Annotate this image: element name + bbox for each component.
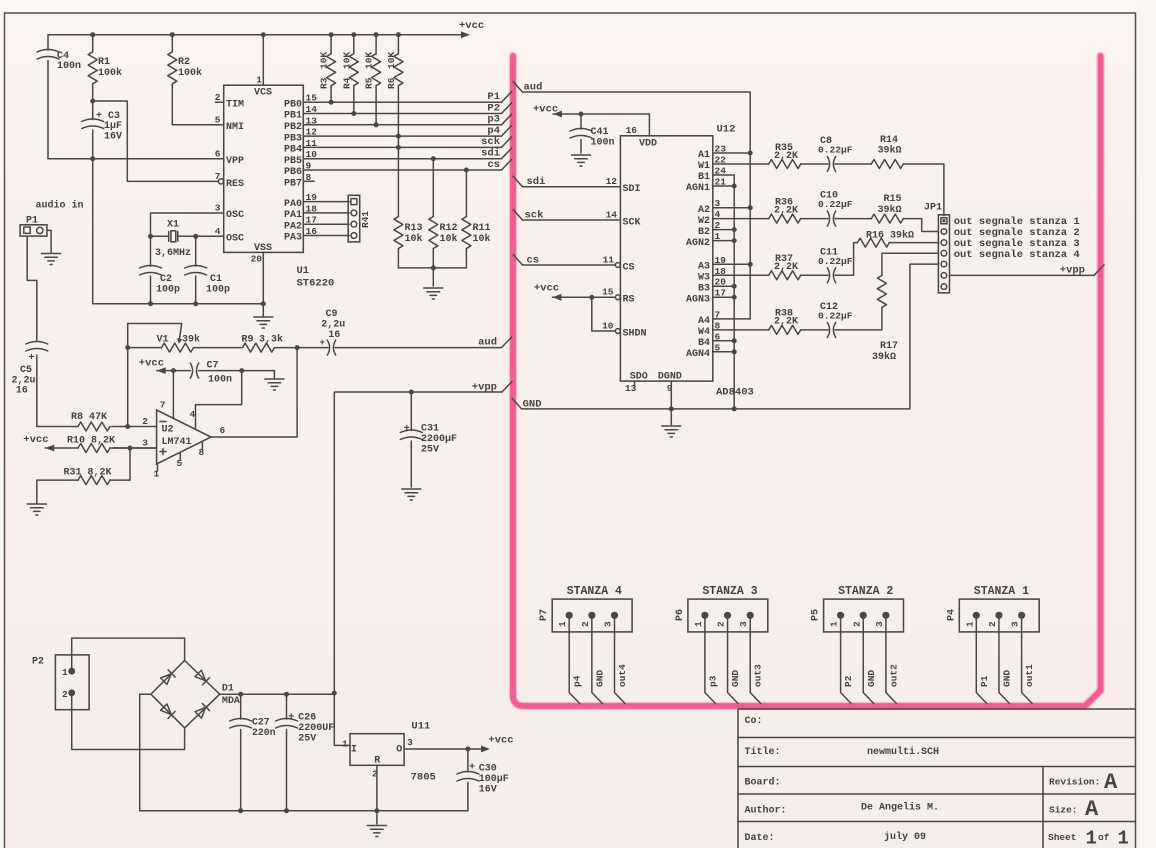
P1 ground wire bbox=[47, 230, 51, 252]
resistor R9 3,3k bbox=[243, 343, 275, 352]
svg-text:PB1: PB1 bbox=[284, 111, 302, 122]
svg-text:STANZA 4: STANZA 4 bbox=[567, 585, 622, 598]
capacitor C5 (polarized) bbox=[26, 342, 48, 352]
svg-text:TIM: TIM bbox=[226, 100, 244, 111]
svg-text:R16 39kΩ: R16 39kΩ bbox=[866, 230, 914, 242]
svg-text:P6: P6 bbox=[675, 609, 686, 621]
svg-text:5: 5 bbox=[215, 115, 221, 126]
capacitor C7 100n bbox=[190, 363, 198, 378]
svg-text:2: 2 bbox=[716, 621, 727, 627]
capacitor C27 220n bbox=[240, 694, 242, 811]
svg-text:RS: RS bbox=[623, 295, 635, 306]
svg-text:8: 8 bbox=[199, 447, 205, 458]
svg-text:PA0: PA0 bbox=[284, 199, 302, 210]
wire P2 bbox=[841, 615, 852, 703]
off-page tag cs bbox=[502, 160, 512, 171]
wire p3 from U1 bbox=[303, 124, 501, 126]
off-page tag GND bbox=[512, 398, 522, 409]
resistor R13 10k bbox=[397, 147, 399, 268]
svg-text:ST6220: ST6220 bbox=[297, 278, 335, 290]
svg-text:Board:: Board: bbox=[745, 777, 781, 789]
svg-text:14: 14 bbox=[606, 210, 618, 221]
svg-text:16: 16 bbox=[16, 386, 28, 397]
ground at C41 bbox=[572, 155, 591, 166]
svg-text:PB3: PB3 bbox=[284, 133, 302, 144]
svg-text:OSC: OSC bbox=[226, 210, 244, 221]
capacitor C31 2200uF bbox=[410, 392, 412, 487]
wire GND rail bbox=[522, 408, 910, 410]
svg-text:A2: A2 bbox=[698, 205, 710, 216]
svg-text:10k: 10k bbox=[440, 233, 458, 245]
wire sck from U1 bbox=[303, 146, 501, 148]
svg-text:2: 2 bbox=[987, 621, 998, 627]
svg-text:PB7: PB7 bbox=[284, 179, 302, 190]
IC U1 ST6220 box bbox=[224, 85, 304, 252]
svg-text:NMI: NMI bbox=[226, 122, 244, 133]
svg-text:A: A bbox=[1104, 770, 1118, 795]
svg-text:U1: U1 bbox=[297, 265, 310, 277]
U2 pin 5 stub bbox=[179, 452, 181, 460]
svg-text:p4: p4 bbox=[572, 675, 583, 687]
svg-text:W2: W2 bbox=[698, 216, 710, 227]
svg-text:C9: C9 bbox=[326, 309, 338, 320]
svg-text:LM741: LM741 bbox=[162, 437, 192, 448]
svg-text:0.22µF: 0.22µF bbox=[818, 256, 853, 267]
resistor R8 47K bbox=[78, 422, 110, 431]
svg-text:100p: 100p bbox=[206, 285, 230, 296]
svg-text:AGN2: AGN2 bbox=[686, 238, 710, 249]
svg-text:R12: R12 bbox=[440, 223, 458, 234]
svg-text:A3: A3 bbox=[698, 262, 710, 273]
svg-text:4: 4 bbox=[215, 226, 221, 237]
svg-text:P2: P2 bbox=[32, 657, 44, 668]
title block bbox=[738, 709, 1136, 848]
svg-text:6: 6 bbox=[215, 149, 221, 160]
svg-text:3: 3 bbox=[142, 438, 148, 449]
U1 PB7 stub bbox=[303, 180, 314, 182]
svg-text:1: 1 bbox=[693, 621, 704, 627]
svg-text:+vcc: +vcc bbox=[139, 358, 164, 370]
svg-text:10: 10 bbox=[602, 320, 614, 331]
U2 minus plus signs bbox=[160, 422, 166, 455]
wire p4 from U1 bbox=[303, 135, 501, 137]
svg-text:P1: P1 bbox=[487, 91, 500, 103]
svg-text:R31 8,2K: R31 8,2K bbox=[64, 468, 112, 479]
resistor R10 8,2K bbox=[45, 447, 156, 449]
svg-text:+vcc: +vcc bbox=[534, 283, 559, 295]
svg-text:STANZA 3: STANZA 3 bbox=[702, 585, 757, 598]
svg-text:100µF: 100µF bbox=[479, 774, 509, 785]
svg-text:STANZA 2: STANZA 2 bbox=[838, 585, 893, 598]
resistor R15 39k bbox=[835, 218, 871, 220]
diode D1a bbox=[160, 670, 175, 685]
off-page tag P2 bbox=[502, 103, 512, 114]
capacitor C41 100n bbox=[580, 114, 582, 153]
B/AGN bus vertical to GND bbox=[733, 175, 735, 409]
svg-text:cs: cs bbox=[487, 159, 500, 171]
svg-text:7: 7 bbox=[160, 400, 166, 411]
wire P2 pin1 to bridge top bbox=[72, 638, 185, 671]
svg-text:out1: out1 bbox=[1024, 664, 1035, 687]
svg-text:DGND: DGND bbox=[658, 372, 682, 383]
wire out2 bbox=[886, 615, 897, 703]
svg-text:R1: R1 bbox=[98, 57, 110, 68]
svg-text:R13: R13 bbox=[405, 223, 423, 234]
svg-text:Co:: Co: bbox=[745, 716, 763, 727]
wire C12 to R17 bbox=[835, 307, 882, 330]
svg-text:W3: W3 bbox=[698, 273, 710, 284]
P4 pin 3 bbox=[1018, 612, 1025, 619]
svg-text:W4: W4 bbox=[698, 327, 710, 338]
svg-text:+: + bbox=[404, 424, 410, 435]
svg-text:7: 7 bbox=[215, 171, 221, 182]
off-page tag aud (left) bbox=[502, 337, 512, 348]
bridge rectifier D1 MDA bbox=[151, 661, 220, 728]
svg-text:sck: sck bbox=[481, 136, 500, 148]
svg-text:Size:: Size: bbox=[1049, 805, 1078, 816]
svg-text:7805: 7805 bbox=[411, 772, 436, 784]
svg-text:1: 1 bbox=[342, 739, 348, 750]
svg-text:JP1: JP1 bbox=[924, 203, 942, 214]
svg-text:2: 2 bbox=[580, 621, 591, 627]
svg-text:1: 1 bbox=[829, 621, 840, 627]
svg-text:A: A bbox=[1085, 797, 1099, 822]
U12 pin 11 CS (bubble) bbox=[523, 264, 616, 266]
svg-text:R3: R3 bbox=[319, 77, 330, 89]
svg-text:6: 6 bbox=[220, 425, 226, 436]
svg-text:SDO: SDO bbox=[630, 372, 648, 383]
R6 line continues to sck row bbox=[397, 136, 399, 147]
wire RES from R1/C3 node bbox=[93, 101, 219, 181]
svg-text:3: 3 bbox=[407, 737, 413, 748]
capacitor C3 (polarized) bbox=[93, 101, 264, 304]
svg-text:SDI: SDI bbox=[623, 184, 641, 195]
svg-text:39kΩ: 39kΩ bbox=[878, 145, 902, 157]
P4 pin 2 bbox=[995, 612, 1002, 619]
svg-text:3,6MHz: 3,6MHz bbox=[155, 248, 191, 259]
P7 pin 2 bbox=[588, 612, 595, 619]
svg-text:+vpp: +vpp bbox=[1060, 265, 1085, 277]
svg-text:39kΩ: 39kΩ bbox=[872, 351, 896, 363]
P5 pin 3 bbox=[882, 612, 889, 619]
U12 pin 12 SDI bbox=[523, 186, 621, 188]
svg-text:P2: P2 bbox=[487, 102, 500, 114]
svg-text:GND: GND bbox=[1001, 670, 1012, 687]
svg-text:+vcc: +vcc bbox=[23, 434, 48, 446]
svg-text:16V: 16V bbox=[104, 132, 122, 143]
svg-text:P5: P5 bbox=[811, 609, 822, 621]
diode D1d bbox=[195, 704, 210, 719]
svg-text:2,2K: 2,2K bbox=[774, 317, 798, 328]
svg-text:C7: C7 bbox=[207, 361, 219, 372]
svg-text:MDA: MDA bbox=[222, 696, 240, 707]
wire bridge plus to regulator bbox=[220, 693, 335, 695]
P7 pin 3 bbox=[611, 612, 618, 619]
svg-text:C41: C41 bbox=[591, 127, 609, 138]
U1 pin 1 VCS bbox=[262, 35, 264, 85]
svg-text:R8 47K: R8 47K bbox=[71, 412, 107, 423]
svg-text:VCS: VCS bbox=[254, 88, 272, 99]
svg-text:PA2: PA2 bbox=[284, 221, 302, 232]
svg-text:Date:: Date: bbox=[745, 833, 775, 844]
potentiometer V1 39k bbox=[128, 347, 242, 349]
U12 pin 10 SHDN (bubble) bbox=[615, 329, 620, 334]
svg-text:2: 2 bbox=[62, 689, 68, 700]
capacitor C11 0.22uF bbox=[801, 274, 828, 276]
svg-text:STANZA 1: STANZA 1 bbox=[974, 585, 1029, 598]
svg-text:Sheet: Sheet bbox=[1048, 832, 1077, 843]
svg-text:12: 12 bbox=[606, 176, 618, 187]
ground at U11 bbox=[376, 811, 378, 824]
svg-text:PB2: PB2 bbox=[284, 122, 302, 133]
svg-text:2,2K: 2,2K bbox=[774, 262, 798, 273]
svg-text:p3: p3 bbox=[487, 114, 500, 126]
svg-text:+: + bbox=[320, 338, 325, 348]
svg-text:2200µF: 2200µF bbox=[421, 434, 457, 445]
svg-text:Revision:: Revision: bbox=[1049, 777, 1100, 788]
wire out1 bbox=[1022, 615, 1033, 703]
svg-text:11: 11 bbox=[603, 255, 615, 266]
ground at R31 bbox=[27, 504, 46, 515]
svg-text:1: 1 bbox=[154, 469, 160, 480]
voltage regulator U11 7805 bbox=[350, 734, 404, 766]
svg-text:3: 3 bbox=[1010, 621, 1021, 627]
wire GND bbox=[863, 615, 874, 703]
IC U12 AD8403 box bbox=[620, 136, 712, 381]
svg-text:R5: R5 bbox=[364, 77, 375, 89]
P6 pin 3 bbox=[747, 612, 754, 619]
svg-text:AGN3: AGN3 bbox=[686, 294, 710, 305]
svg-text:VPP: VPP bbox=[226, 156, 244, 167]
svg-text:2200UF: 2200UF bbox=[298, 723, 334, 734]
svg-text:AGN1: AGN1 bbox=[686, 183, 710, 194]
wire R15 to JP1 pin2 bbox=[903, 219, 938, 232]
U2 pin 1 stub bbox=[157, 464, 159, 471]
resistor R14 39k bbox=[835, 163, 871, 165]
svg-text:of: of bbox=[1098, 832, 1110, 843]
resistor R6 10K pull-up bbox=[397, 35, 399, 136]
svg-text:3: 3 bbox=[738, 621, 749, 627]
svg-text:3,3k: 3,3k bbox=[259, 334, 283, 346]
svg-text:10K: 10K bbox=[319, 52, 330, 69]
svg-text:PA1: PA1 bbox=[284, 210, 302, 221]
svg-text:VDD: VDD bbox=[639, 139, 657, 150]
svg-text:Author:: Author: bbox=[745, 805, 787, 817]
svg-text:1: 1 bbox=[62, 667, 68, 678]
svg-text:+vpp: +vpp bbox=[472, 382, 497, 394]
svg-text:1: 1 bbox=[557, 621, 568, 627]
svg-text:PA3: PA3 bbox=[284, 233, 302, 244]
svg-text:1: 1 bbox=[1118, 828, 1129, 848]
svg-text:OSC: OSC bbox=[226, 234, 244, 245]
off-page tag P1 bbox=[502, 92, 512, 103]
svg-text:C1: C1 bbox=[210, 274, 222, 285]
resistor R12 10k bbox=[432, 159, 434, 268]
wire bridge minus to ground rail bbox=[140, 694, 468, 811]
wire GND bbox=[592, 615, 603, 703]
svg-text:out segnale stanza 4: out segnale stanza 4 bbox=[954, 249, 1080, 261]
svg-text:1: 1 bbox=[256, 75, 262, 86]
resistor R37 2,2K bbox=[713, 274, 769, 276]
svg-text:C31: C31 bbox=[421, 424, 439, 435]
+vcc arrowhead bbox=[461, 31, 470, 38]
svg-text:PB4: PB4 bbox=[284, 145, 302, 156]
svg-text:C27: C27 bbox=[252, 717, 270, 728]
resistor R31 8,2K bbox=[37, 448, 130, 503]
U2 pin 2 input bbox=[112, 426, 157, 428]
svg-text:2: 2 bbox=[142, 416, 148, 427]
svg-text:PB5: PB5 bbox=[284, 156, 302, 167]
P6 pin 1 bbox=[701, 612, 708, 619]
svg-text:out3: out3 bbox=[753, 664, 764, 687]
svg-text:PB0: PB0 bbox=[284, 99, 302, 110]
U2 pin 7 stub bbox=[172, 371, 174, 419]
U11 output wire to +vcc bbox=[404, 748, 486, 750]
U1 pin 7 RES (bubble) bbox=[218, 179, 223, 184]
U2 pin 4 stub bbox=[196, 371, 242, 429]
svg-text:10k: 10k bbox=[405, 233, 423, 245]
off-page tag +vpp (right) bbox=[1094, 265, 1104, 276]
svg-text:A4: A4 bbox=[698, 316, 710, 327]
svg-text:5: 5 bbox=[177, 458, 183, 469]
svg-text:R10 8,2K: R10 8,2K bbox=[67, 436, 115, 447]
resistor R35 2,2K bbox=[713, 163, 769, 165]
off-page tag sdi bbox=[502, 148, 512, 159]
svg-text:D1: D1 bbox=[222, 684, 234, 695]
capacitor C9 2,2u bbox=[327, 340, 335, 355]
svg-text:GND: GND bbox=[866, 670, 877, 687]
capacitor C26 2200UF bbox=[286, 694, 288, 811]
ground at C31 bbox=[402, 489, 421, 500]
svg-text:B4: B4 bbox=[698, 338, 710, 349]
svg-text:P4: P4 bbox=[946, 609, 957, 621]
svg-text:4: 4 bbox=[190, 409, 196, 420]
wire P2 pin2 to bridge bottom bbox=[72, 693, 185, 750]
wire VPP rail bbox=[48, 158, 224, 160]
resistor R11 10k bbox=[465, 170, 467, 268]
svg-text:C30: C30 bbox=[479, 764, 497, 775]
wire p3 bbox=[705, 615, 716, 703]
crystal X1 bbox=[151, 213, 224, 236]
off-page tag sck bbox=[502, 137, 512, 148]
resistor R5 10K pull-up bbox=[375, 35, 377, 125]
svg-text:out4: out4 bbox=[617, 664, 628, 687]
wire +vpp bbox=[334, 392, 502, 693]
svg-text:P7: P7 bbox=[539, 609, 550, 621]
wire +vpp from JP1 pin6 bbox=[950, 274, 1095, 276]
svg-text:C26: C26 bbox=[298, 713, 316, 724]
svg-text:R17: R17 bbox=[880, 341, 898, 352]
diode D1b bbox=[195, 670, 210, 685]
svg-text:AGN4: AGN4 bbox=[686, 349, 710, 360]
svg-text:20: 20 bbox=[251, 254, 263, 265]
U12 pin 14 SCK bbox=[523, 219, 621, 221]
svg-text:100p: 100p bbox=[156, 285, 180, 296]
wire GND bbox=[728, 615, 739, 703]
wire GND riser to JP1 pin5 bbox=[910, 264, 939, 409]
resistor R4 10K pull-up bbox=[353, 35, 355, 114]
svg-text:+vcc: +vcc bbox=[459, 20, 484, 32]
svg-text:De Angelis M.: De Angelis M. bbox=[861, 802, 939, 814]
svg-text:PB6: PB6 bbox=[284, 167, 302, 178]
svg-text:15: 15 bbox=[602, 287, 614, 298]
P4 pin 1 bbox=[973, 612, 980, 619]
wire R17 to JP1 pin4 bbox=[882, 253, 939, 275]
svg-text:R4: R4 bbox=[341, 77, 352, 89]
svg-text:100k: 100k bbox=[178, 67, 202, 79]
capacitor C30 100uF bbox=[467, 749, 469, 811]
svg-text:R14: R14 bbox=[880, 135, 898, 146]
svg-text:U2: U2 bbox=[162, 425, 174, 436]
svg-text:newmulti.SCH: newmulti.SCH bbox=[867, 746, 939, 758]
wire to U11 input bbox=[334, 693, 350, 745]
diode D1c bbox=[160, 704, 175, 719]
svg-text:100n: 100n bbox=[591, 138, 615, 149]
wire +vcc to RS and SHDN bbox=[552, 297, 615, 331]
svg-text:2,2K: 2,2K bbox=[774, 151, 798, 162]
wire GND bbox=[999, 615, 1010, 703]
svg-text:25V: 25V bbox=[298, 734, 316, 745]
+vcc arrow PSU output bbox=[481, 746, 490, 753]
wire R16 to JP1 pin3 bbox=[889, 242, 938, 244]
wire C11 up to R16 row bbox=[835, 243, 858, 276]
svg-text:U12: U12 bbox=[717, 124, 736, 136]
svg-text:SHDN: SHDN bbox=[623, 329, 647, 340]
svg-text:3: 3 bbox=[215, 203, 221, 214]
svg-text:C5: C5 bbox=[20, 365, 32, 376]
U2 pin 3 input bbox=[113, 447, 157, 449]
wire P1 from U1 bbox=[303, 101, 501, 103]
wire out3 bbox=[750, 615, 761, 703]
svg-text:16V: 16V bbox=[479, 785, 497, 796]
svg-text:+: + bbox=[29, 353, 35, 364]
svg-text:GND: GND bbox=[730, 670, 741, 687]
svg-text:SCK: SCK bbox=[623, 218, 641, 229]
P6 pin 2 bbox=[724, 612, 731, 619]
wire aud to A bus bbox=[523, 92, 751, 319]
off-page tag p3 bbox=[502, 114, 512, 125]
svg-text:R6: R6 bbox=[386, 77, 397, 89]
off-page tag sck bbox=[513, 210, 523, 221]
wire P1 to C5 bbox=[27, 236, 78, 426]
capacitor C1 bbox=[195, 236, 197, 303]
wire P1 bbox=[976, 615, 987, 703]
capacitor C10 0.22uF bbox=[801, 218, 828, 220]
svg-text:GND: GND bbox=[594, 670, 605, 687]
svg-text:A1: A1 bbox=[698, 150, 710, 161]
V1 wiper arrow bbox=[128, 324, 182, 341]
svg-text:audio in: audio in bbox=[36, 200, 84, 212]
svg-text:+: + bbox=[288, 713, 294, 724]
svg-text:220n: 220n bbox=[252, 727, 276, 738]
svg-text:R41: R41 bbox=[360, 211, 371, 228]
U12 pin 15 RS (bubble) bbox=[615, 295, 620, 300]
svg-text:V1: V1 bbox=[157, 335, 169, 346]
svg-text:B1: B1 bbox=[698, 172, 710, 183]
wire sdi from U1 bbox=[303, 158, 501, 160]
svg-text:U11: U11 bbox=[411, 721, 430, 733]
ground at C7 bbox=[273, 371, 275, 378]
svg-text:R9: R9 bbox=[242, 335, 254, 346]
wire aud from C9 bbox=[335, 347, 502, 349]
P7 pin 1 bbox=[566, 612, 573, 619]
wire R14 to JP1 pin1 bbox=[903, 164, 944, 216]
common wire R13-R11 to ground bbox=[398, 268, 466, 286]
feedback vertical wire bbox=[127, 324, 129, 427]
svg-text:sdi: sdi bbox=[481, 148, 500, 160]
svg-text:p3: p3 bbox=[707, 675, 718, 687]
svg-text:R2: R2 bbox=[178, 57, 190, 68]
